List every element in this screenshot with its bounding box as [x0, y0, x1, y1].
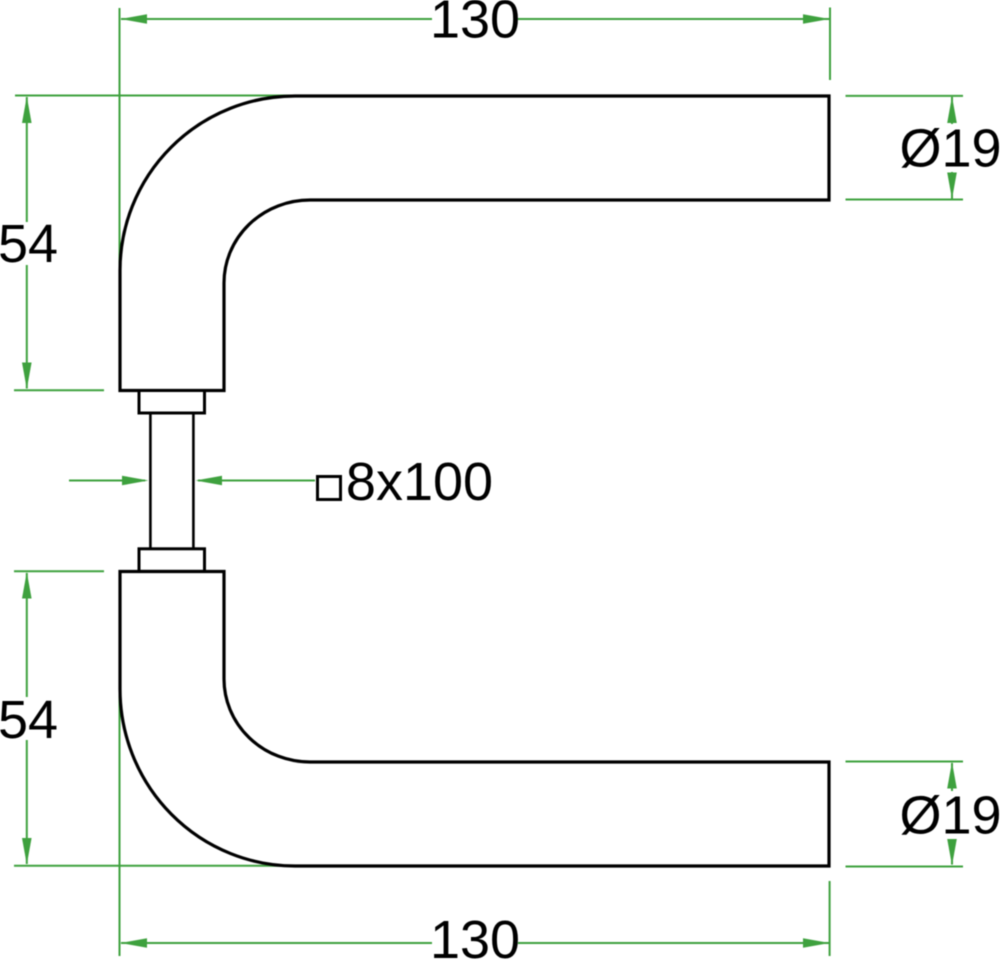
svg-text:130: 130	[430, 0, 520, 50]
svg-text:Ø19: Ø19	[899, 786, 1000, 846]
svg-text:130: 130	[430, 910, 520, 963]
svg-text:54: 54	[0, 214, 58, 274]
svg-text:8x100: 8x100	[346, 452, 493, 512]
svg-text:54: 54	[0, 690, 58, 750]
svg-text:Ø19: Ø19	[899, 119, 1000, 179]
